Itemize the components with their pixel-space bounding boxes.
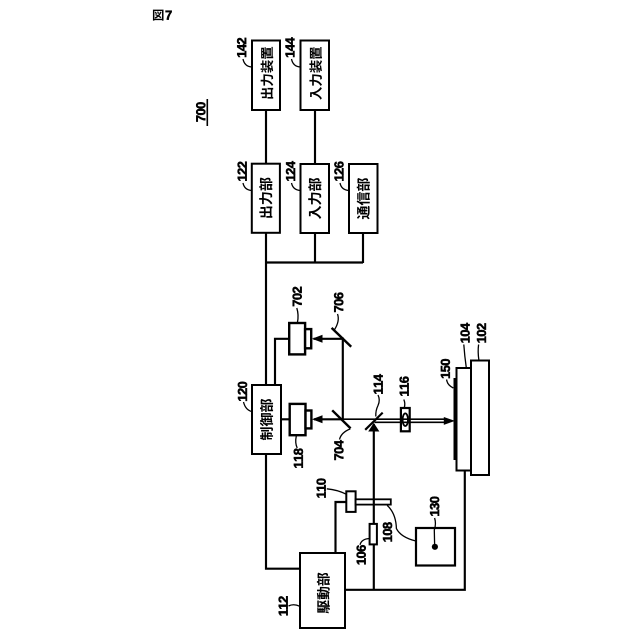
underline 700	[206, 99, 208, 126]
leader 130	[434, 518, 435, 544]
leader 144	[292, 59, 301, 67]
box 126 comm unit	[349, 164, 378, 233]
wire 112-sample loop	[345, 470, 465, 590]
camera 118 body	[290, 404, 306, 435]
wire 144-124	[314, 110, 316, 164]
leader 142	[243, 59, 252, 67]
label 130	[430, 497, 439, 516]
leader 114	[376, 395, 379, 417]
dot in box 130	[432, 544, 438, 550]
leader 150	[447, 380, 454, 389]
element 106 light source	[370, 524, 377, 545]
label 144	[286, 37, 295, 57]
label 142	[237, 38, 246, 57]
beam vertical between mirrors	[342, 338, 344, 420]
label 150	[441, 359, 450, 378]
label 120	[238, 382, 247, 401]
label 104	[460, 323, 469, 343]
leader 102	[477, 345, 480, 361]
wire 122-bus-120	[265, 233, 267, 385]
wire 142-122	[265, 110, 267, 164]
box 124 input unit	[301, 164, 330, 233]
leader 120	[244, 402, 252, 412]
leader 108	[387, 505, 416, 541]
label 114	[374, 374, 383, 394]
leader 106	[360, 539, 369, 545]
camera 118 lens	[306, 411, 312, 429]
box 130	[416, 528, 455, 566]
label 108	[383, 522, 392, 541]
label 116	[400, 377, 409, 396]
wire optical axis down	[373, 424, 375, 590]
mirror 704	[332, 410, 350, 428]
beam 704-118	[314, 418, 341, 420]
label 700	[196, 102, 205, 121]
label 124	[286, 161, 295, 181]
figure title 図7	[153, 10, 172, 21]
wire 120-112	[266, 454, 300, 569]
lens 116	[401, 408, 410, 431]
substrate 102	[471, 361, 489, 476]
slash at node 114	[365, 413, 383, 430]
box 120 control unit	[252, 385, 281, 454]
leader 112	[289, 605, 300, 607]
leader 104	[464, 345, 467, 368]
label 102	[477, 323, 486, 342]
box 142 output device	[252, 41, 280, 111]
film 150	[454, 378, 458, 460]
arrowhead into camera 118 lens	[312, 415, 323, 423]
leader 124	[292, 183, 301, 191]
wire 120-118	[281, 418, 290, 420]
label 112	[279, 596, 288, 615]
wire 110-112	[336, 502, 347, 553]
camera 702 body	[289, 323, 305, 354]
arrowhead up at node 114	[368, 423, 379, 432]
beam lower line to sample	[375, 421, 446, 423]
element 108 arm bar	[356, 499, 391, 504]
wire bus	[265, 261, 363, 263]
leader 126	[340, 183, 349, 191]
label 118	[294, 448, 303, 467]
leader 118	[296, 436, 297, 448]
label 704	[334, 440, 343, 460]
arrowhead into sample	[444, 417, 455, 425]
label 110	[317, 478, 326, 497]
arrowhead into camera 702 lens	[312, 335, 323, 343]
layer 104	[457, 368, 472, 471]
wire 126-bus	[362, 233, 364, 263]
label 702	[293, 287, 302, 306]
leader 110	[327, 489, 346, 494]
label 706	[334, 293, 343, 312]
camera 702 lens	[305, 329, 311, 348]
wire 124-bus	[314, 233, 316, 263]
box 112 drive unit	[300, 553, 345, 628]
label 126	[334, 162, 343, 181]
beam upper line to sample	[341, 418, 445, 420]
leader 116	[404, 400, 405, 408]
leader 702	[297, 308, 298, 323]
label 106	[357, 545, 366, 564]
label 122	[238, 162, 247, 181]
mirror 706	[332, 328, 352, 347]
wire 702-120	[275, 339, 290, 385]
box 144 input device	[301, 41, 330, 111]
leader 704	[340, 429, 351, 440]
leader 706	[334, 314, 338, 330]
box 122 output unit	[252, 164, 280, 233]
element 110 mount	[346, 491, 355, 512]
leader 122	[243, 183, 252, 191]
axis line through bar	[373, 499, 375, 505]
beam 706-702	[314, 338, 344, 340]
